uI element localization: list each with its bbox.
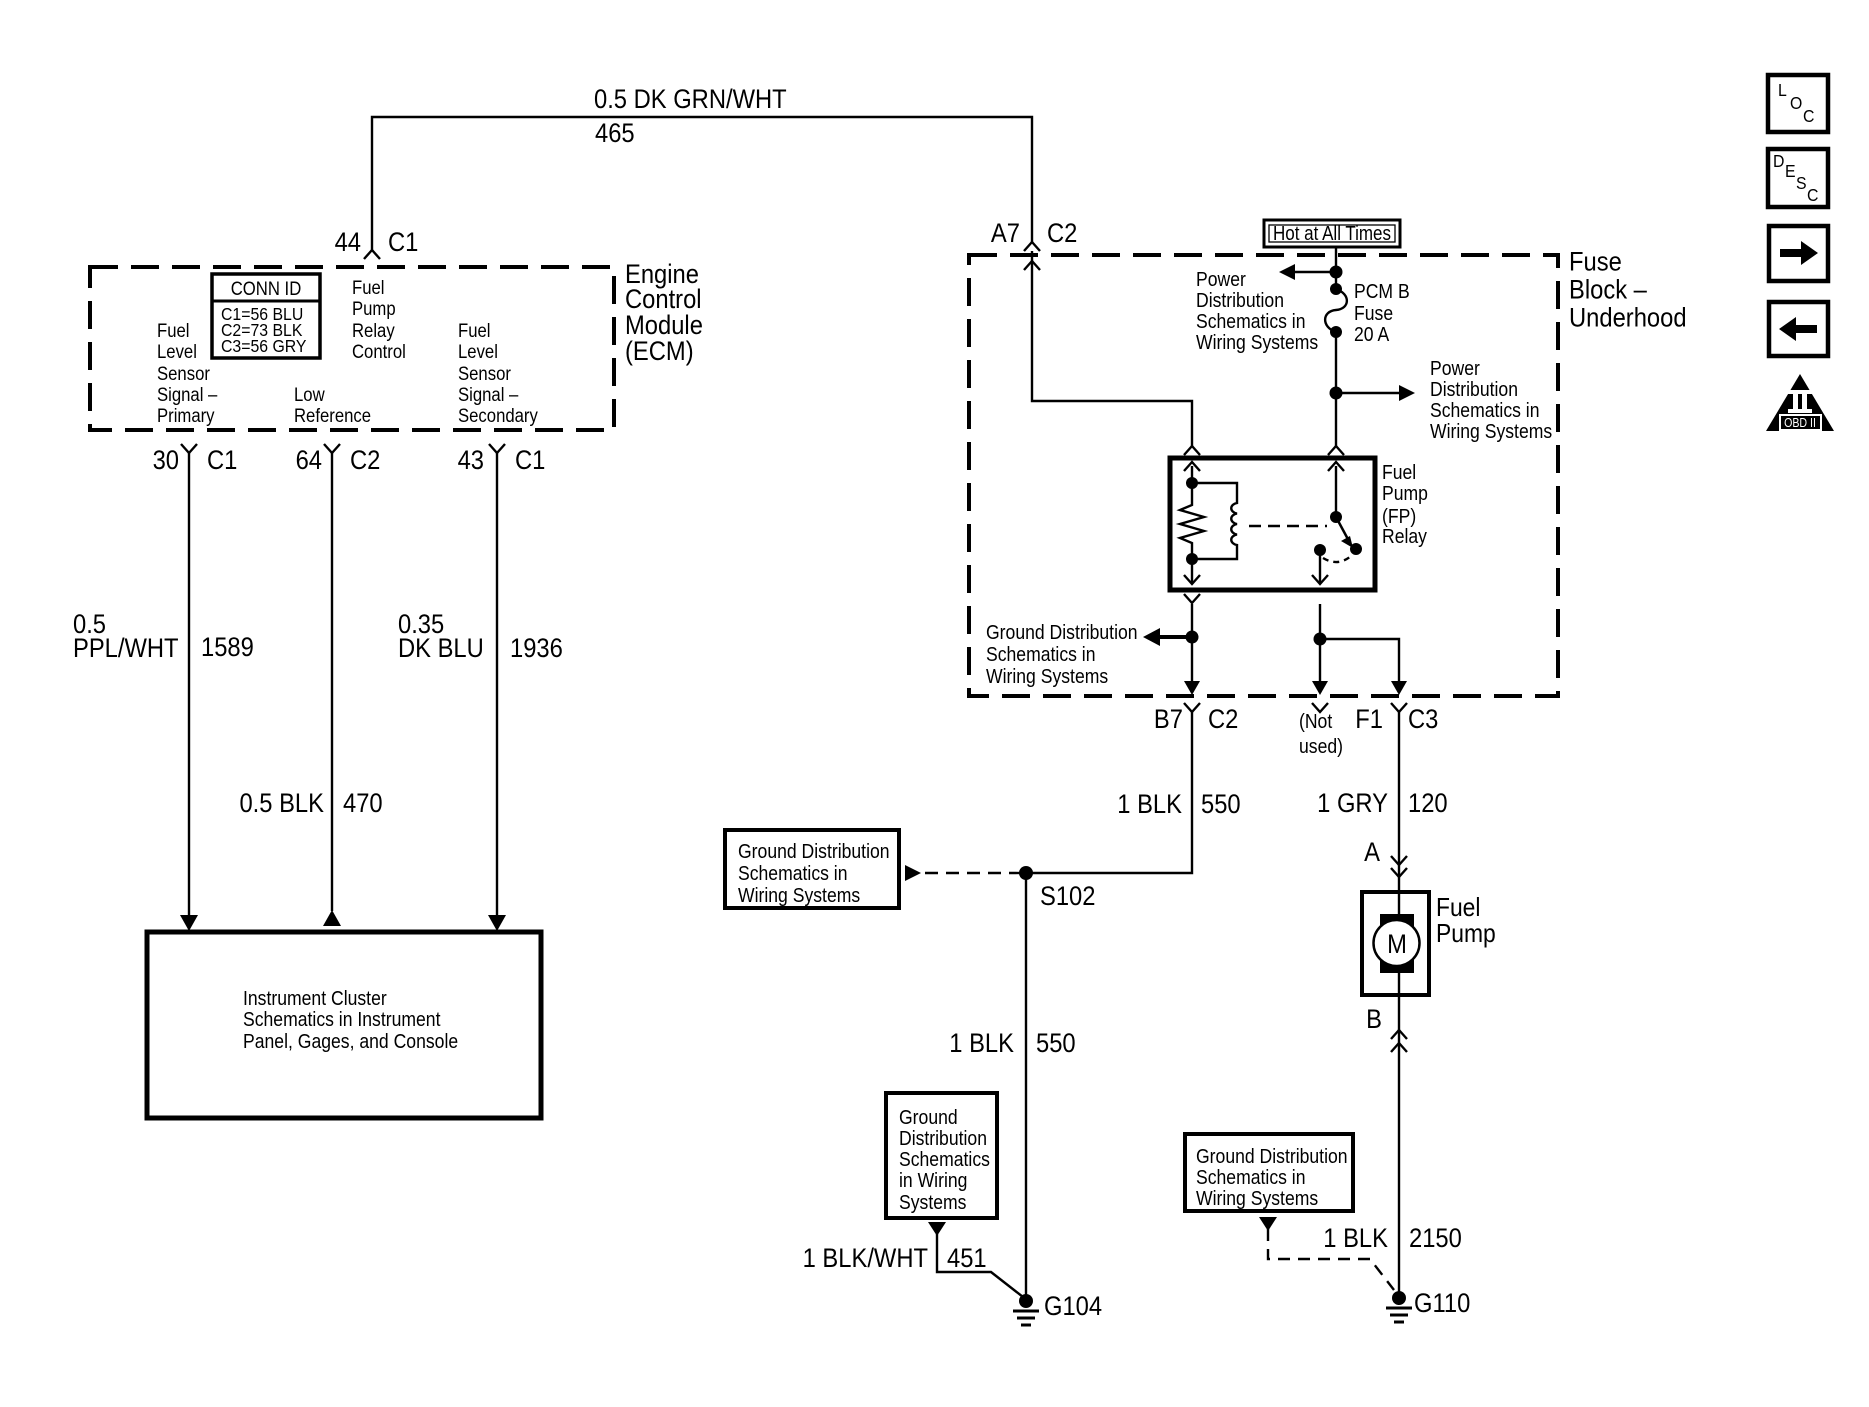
svg-text:Wiring Systems: Wiring Systems — [1196, 331, 1318, 353]
svg-text:Ground Distribution: Ground Distribution — [986, 621, 1138, 643]
relay coil-side exit arrow — [1184, 559, 1200, 584]
svg-text:in Wiring: in Wiring — [899, 1169, 967, 1191]
svg-text:Wiring Systems: Wiring Systems — [738, 884, 860, 906]
junction node F1 branch — [1314, 633, 1327, 646]
ECM label Engine Control Module — [625, 260, 703, 367]
svg-text:Power: Power — [1430, 357, 1480, 379]
svg-text:Ground Distribution: Ground Distribution — [1196, 1145, 1348, 1167]
svg-text:1589: 1589 — [201, 633, 254, 663]
svg-text:Schematics in: Schematics in — [1430, 399, 1539, 421]
wire 2150 (1 BLK) from pump to G110 — [1398, 995, 1400, 1294]
svg-text:Sensor: Sensor — [458, 363, 511, 384]
svg-text:Fuel: Fuel — [1382, 461, 1416, 483]
icon LOC — [1768, 75, 1828, 132]
pin F1 C3 connector chevron — [1391, 703, 1407, 712]
relay coil bottom node — [1186, 553, 1198, 565]
svg-text:1 BLK: 1 BLK — [1117, 790, 1182, 820]
svg-text:D: D — [1773, 151, 1784, 171]
svg-text:E: E — [1785, 161, 1796, 181]
svg-text:Reference: Reference — [294, 405, 371, 426]
arrow out of instrument cluster (middle, pointing up) — [323, 910, 341, 926]
junction node below fuse — [1330, 387, 1343, 400]
svg-text:Signal –: Signal – — [458, 384, 518, 405]
exit arrow at fuse block edge (F1) — [1391, 681, 1407, 695]
double chevron into fuel pump — [1391, 856, 1407, 877]
svg-text:S: S — [1796, 173, 1807, 193]
svg-text:451: 451 — [947, 1244, 987, 1274]
pin 43 C1 connector — [458, 444, 546, 475]
wire from switch common to F1 — [1320, 604, 1399, 681]
icon OBD II triangle — [1766, 374, 1834, 431]
ground G110 — [1386, 1291, 1412, 1322]
svg-text:Primary: Primary — [157, 405, 215, 426]
svg-text:Fuel: Fuel — [1436, 894, 1480, 923]
svg-text:1 GRY: 1 GRY — [1317, 789, 1388, 819]
relay label Fuel Pump (FP) Relay — [1382, 461, 1428, 547]
svg-text:C: C — [1803, 106, 1814, 126]
junction node above fuse — [1330, 266, 1343, 279]
svg-text:PPL/WHT: PPL/WHT — [73, 634, 179, 664]
arrow below G104 note box — [928, 1222, 946, 1236]
svg-text:Relay: Relay — [352, 320, 395, 341]
pin B7 C2 connector chevron — [1184, 703, 1200, 712]
svg-text:Hot at All Times: Hot at All Times — [1273, 222, 1391, 245]
svg-text:Schematics in: Schematics in — [1196, 1166, 1305, 1188]
svg-text:C3: C3 — [1408, 705, 1438, 735]
svg-text:C1: C1 — [515, 446, 545, 476]
wire 550 from S102 down to G104 — [1025, 873, 1027, 1297]
ground G104 — [1013, 1294, 1039, 1325]
svg-text:Schematics in Instrument: Schematics in Instrument — [243, 1008, 441, 1030]
relay switch-side exit arrow — [1312, 550, 1328, 584]
svg-text:PCM B: PCM B — [1354, 280, 1410, 302]
relay coil top node — [1186, 477, 1198, 489]
relay switch blade with arrowhead — [1336, 517, 1353, 548]
svg-text:Schematics in: Schematics in — [738, 862, 847, 884]
svg-text:C2: C2 — [1047, 219, 1077, 249]
svg-text:Fuel: Fuel — [352, 277, 384, 298]
chevron into relay left pin — [1184, 446, 1200, 455]
wire relay coil low side down to fuse block edge — [1191, 604, 1193, 681]
svg-text:Block –: Block – — [1569, 275, 1648, 305]
svg-text:(FP): (FP) — [1382, 505, 1416, 527]
Hot at All Times box — [1264, 220, 1400, 247]
svg-text:Distribution: Distribution — [899, 1127, 987, 1149]
svg-text:550: 550 — [1036, 1029, 1076, 1059]
Ground Distribution Schematics note box (S102) — [725, 830, 899, 908]
svg-text:CONN ID: CONN ID — [231, 278, 302, 299]
svg-text:Wiring Systems: Wiring Systems — [986, 665, 1108, 687]
svg-text:G110: G110 — [1414, 1289, 1470, 1319]
svg-text:1 BLK/WHT: 1 BLK/WHT — [803, 1244, 928, 1274]
splice S102 node — [1019, 866, 1033, 880]
arrowhead at ground distribution note (S102) — [905, 865, 921, 881]
svg-text:1936: 1936 — [510, 634, 563, 664]
svg-text:Schematics: Schematics — [899, 1148, 990, 1170]
svg-text:Power: Power — [1196, 268, 1246, 290]
svg-text:Secondary: Secondary — [458, 405, 538, 426]
pin A7 C2 connector chevron — [1024, 242, 1040, 251]
svg-text:465: 465 — [595, 119, 635, 149]
svg-text:43: 43 — [458, 446, 484, 476]
svg-text:0.5 BLK: 0.5 BLK — [239, 789, 324, 819]
relay switch common contact node — [1314, 544, 1326, 556]
svg-text:C1: C1 — [207, 446, 237, 476]
svg-text:Underhood: Underhood — [1569, 303, 1687, 333]
relay actuation dashed arc — [1323, 556, 1351, 562]
svg-text:DK BLU: DK BLU — [398, 634, 484, 664]
ECM internal label: Fuel Level Sensor Signal - Primary — [157, 320, 217, 426]
pin 30 C1 connector — [153, 444, 238, 475]
svg-text:Level: Level — [458, 341, 498, 362]
svg-text:A7: A7 — [991, 219, 1020, 249]
svg-text:Ground Distribution: Ground Distribution — [738, 840, 890, 862]
ECM internal label: Fuel Pump Relay Control — [352, 277, 406, 362]
arrow below G110 note box — [1259, 1217, 1277, 1231]
svg-text:Fuel: Fuel — [458, 320, 490, 341]
wire from Hot at All Times down to fuse — [1335, 247, 1337, 289]
relay coil to switch dashed link — [1249, 525, 1327, 527]
label Fuel Pump — [1436, 894, 1496, 949]
icon forward arrow — [1769, 226, 1828, 281]
svg-text:44: 44 — [335, 228, 361, 258]
svg-text:Distribution: Distribution — [1430, 378, 1518, 400]
svg-text:2150: 2150 — [1409, 1224, 1462, 1254]
svg-text:0.5 DK GRN/WHT: 0.5 DK GRN/WHT — [594, 85, 787, 115]
pin 44 C1 connector chevron — [364, 250, 380, 259]
svg-text:Pump: Pump — [1382, 482, 1428, 504]
svg-text:Fuse: Fuse — [1354, 302, 1393, 324]
exit arrow at fuse block edge (B7) — [1184, 681, 1200, 695]
label (Not used) — [1299, 710, 1343, 757]
chevron below relay left pin — [1184, 594, 1200, 603]
relay switch stationary contact node — [1350, 543, 1362, 555]
wire 120 (1 GRY) from F1 to fuel pump — [1398, 712, 1400, 892]
svg-text:C1: C1 — [388, 228, 418, 258]
svg-text:Schematics in: Schematics in — [1196, 310, 1305, 332]
relay switch pivot node — [1330, 511, 1342, 523]
wire label 0.5 PPL/WHT — [73, 610, 179, 664]
bold arrow left to ground distribution — [1143, 628, 1192, 646]
wire 1589 (0.5 PPL/WHT) — [188, 453, 190, 915]
arrow right to power distribution — [1336, 385, 1415, 401]
wire 470 (0.5 BLK) — [331, 453, 333, 911]
svg-text:64: 64 — [296, 446, 322, 476]
relay coil (parallel winding) — [1192, 483, 1237, 559]
svg-text:30: 30 — [153, 446, 179, 476]
Fuse Block - Underhood label — [1569, 247, 1687, 333]
relay switch-side entry arrow — [1328, 462, 1344, 517]
svg-text:Distribution: Distribution — [1196, 289, 1284, 311]
svg-text:C3=56 GRY: C3=56 GRY — [221, 336, 306, 356]
svg-text:Level: Level — [157, 341, 197, 362]
svg-text:S102: S102 — [1040, 882, 1095, 912]
svg-text:20 A: 20 A — [1354, 323, 1390, 345]
note Power Distribution Schematics in Wiring Systems (left) — [1196, 268, 1318, 353]
junction node B7 branch — [1186, 631, 1199, 644]
note Power Distribution Schematics in Wiring Systems (right) — [1430, 357, 1552, 442]
svg-text:Control: Control — [352, 341, 406, 362]
svg-text:Wiring Systems: Wiring Systems — [1430, 420, 1552, 442]
Instrument Cluster box — [147, 932, 541, 1118]
arrow into instrument cluster (right) — [488, 915, 506, 931]
relay coil-side entry arrow — [1184, 462, 1200, 483]
svg-text:(ECM): (ECM) — [625, 337, 694, 367]
ECM dashed box — [90, 267, 614, 430]
dashed link from note to G110 — [1268, 1229, 1394, 1290]
svg-text:C2: C2 — [350, 446, 380, 476]
svg-text:L: L — [1778, 80, 1787, 100]
svg-text:Instrument Cluster: Instrument Cluster — [243, 987, 387, 1009]
svg-text:B7: B7 — [1154, 705, 1183, 735]
svg-text:Fuse: Fuse — [1569, 247, 1622, 277]
svg-text:M: M — [1387, 930, 1407, 960]
wire from fuse down to relay switch — [1335, 332, 1337, 446]
svg-text:F1: F1 — [1355, 705, 1383, 735]
wire label 0.35 DK BLU — [398, 610, 484, 664]
svg-text:(Not: (Not — [1299, 710, 1333, 732]
svg-text:Systems: Systems — [899, 1191, 966, 1213]
note Ground Distribution Schematics in Wiring Systems (in fuse block) — [986, 621, 1138, 687]
icon back arrow — [1769, 302, 1828, 356]
svg-text:C2: C2 — [1208, 705, 1238, 735]
open arrow up on A7 wire inside fuse block — [1024, 261, 1040, 270]
wire from A7 down and over to relay coil — [1032, 251, 1192, 446]
wire 1936 (0.35 DK BLU) — [496, 453, 498, 915]
svg-text:C: C — [1807, 185, 1818, 205]
arrow left to power distribution — [1279, 264, 1336, 280]
fuse PCM B 20 A element — [1325, 283, 1347, 338]
wire 451 (1 BLK/WHT) from note to G104 — [937, 1234, 1023, 1297]
chevron into relay right pin — [1328, 446, 1344, 455]
fuse block underhood dashed box — [969, 255, 1558, 696]
fuel pump motor — [1362, 892, 1429, 995]
svg-text:B: B — [1366, 1005, 1382, 1035]
pin 64 C2 connector — [296, 444, 381, 475]
ECM internal label: Low Reference — [294, 384, 371, 426]
wire 550 (1 BLK) from B7 to S102 — [1032, 712, 1192, 873]
svg-text:Fuel: Fuel — [157, 320, 189, 341]
svg-text:1 BLK: 1 BLK — [949, 1029, 1014, 1059]
icon DESC — [1768, 149, 1828, 207]
svg-text:470: 470 — [343, 789, 383, 819]
svg-text:Panel, Gages, and Console: Panel, Gages, and Console — [243, 1030, 458, 1052]
Ground Distribution Schematics note box (G104) — [886, 1093, 997, 1218]
svg-text:Pump: Pump — [1436, 920, 1496, 949]
svg-text:OBD II: OBD II — [1784, 416, 1816, 430]
arrow into instrument cluster (left) — [180, 915, 198, 931]
Fuel Pump FP Relay box — [1170, 458, 1375, 590]
exit arrow at fuse block edge (not used) — [1312, 681, 1328, 695]
wire 465 (0.5 DK GRN/WHT) from ECM pin 44 to fuse block pin A7 — [372, 117, 1032, 250]
svg-text:Pump: Pump — [352, 298, 396, 319]
svg-text:A: A — [1364, 838, 1380, 868]
svg-text:Signal –: Signal – — [157, 384, 217, 405]
chevron (not used) — [1312, 703, 1328, 712]
dashed wire from S102 to ground distribution note — [923, 872, 1022, 874]
svg-text:Schematics in: Schematics in — [986, 643, 1095, 665]
CONN ID table — [212, 274, 320, 358]
svg-text:Relay: Relay — [1382, 525, 1428, 547]
svg-text:used): used) — [1299, 735, 1343, 757]
svg-text:550: 550 — [1201, 790, 1241, 820]
svg-text:1 BLK: 1 BLK — [1323, 1224, 1388, 1254]
double chevron below fuel pump — [1391, 1030, 1407, 1052]
svg-text:Sensor: Sensor — [157, 363, 210, 384]
ECM internal label: Fuel Level Sensor Signal - Secondary — [458, 320, 538, 426]
relay resistor — [1180, 483, 1204, 559]
svg-text:G104: G104 — [1044, 1292, 1102, 1322]
Ground Distribution Schematics note box (G110) — [1185, 1134, 1353, 1211]
fuse label PCM B Fuse 20 A — [1354, 280, 1410, 345]
svg-text:Low: Low — [294, 384, 325, 405]
svg-text:Ground: Ground — [899, 1106, 958, 1128]
svg-text:120: 120 — [1408, 789, 1448, 819]
svg-text:Wiring Systems: Wiring Systems — [1196, 1187, 1318, 1209]
svg-text:O: O — [1790, 93, 1802, 113]
